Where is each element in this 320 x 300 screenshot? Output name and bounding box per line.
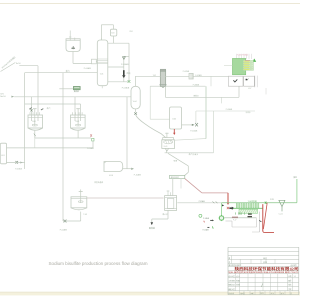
svg-text:P-15A/B: P-15A/B bbox=[203, 228, 209, 231]
wire gray drop bbox=[259, 212, 261, 232]
svg-text:Sodium bisulfite production pr: Sodium bisulfite production process flow… bbox=[49, 261, 149, 266]
svg-text:T-04蒸发罐: T-04蒸发罐 bbox=[248, 199, 257, 203]
page top edge line bbox=[0, 2, 300, 5]
svg-text:回流: 回流 bbox=[127, 71, 131, 75]
svg-text:T-03: T-03 bbox=[83, 214, 87, 216]
steam header bbox=[25, 103, 81, 105]
inline unit bbox=[92, 59, 97, 64]
wire drum outlet bbox=[113, 36, 115, 43]
svg-text:30%NaOH来自罐区: 30%NaOH来自罐区 bbox=[0, 55, 16, 69]
svg-text:NaOH: NaOH bbox=[16, 63, 21, 65]
svg-text:地址:陕西省西安市高新区锦业路 电话:029-8888888: 地址:陕西省西安市高新区锦业路 电话:029-88888888 邮编:71007… bbox=[228, 271, 298, 274]
column top nozzle bbox=[100, 38, 102, 40]
wire red transfer diagonal bbox=[185, 179, 202, 193]
title block bbox=[228, 247, 299, 295]
valve on drop bbox=[34, 134, 36, 137]
small pump circle bbox=[199, 214, 202, 217]
wire down to reactor R-01 bbox=[31, 97, 33, 121]
black arrow (flow marker) bbox=[123, 70, 125, 75]
black inlet arrow bbox=[229, 207, 232, 209]
wire reactor outlet header bbox=[35, 137, 91, 139]
svg-text:蒸发结晶器: 蒸发结晶器 bbox=[94, 180, 103, 184]
wire cw header bbox=[196, 110, 255, 112]
tube bundle teeth bbox=[236, 203, 259, 207]
arrow bbox=[11, 96, 14, 98]
pump box 2 bbox=[244, 76, 255, 86]
wire return loop bbox=[256, 218, 258, 227]
filter F-02 bbox=[189, 73, 193, 79]
svg-text:固体盐: 固体盐 bbox=[149, 226, 155, 230]
faint stub bbox=[265, 88, 267, 94]
lower fittings row bbox=[236, 212, 252, 214]
column bottom stub bbox=[101, 86, 103, 89]
crystallizer T-03 bbox=[80, 189, 82, 203]
narrow column E-02 bbox=[160, 70, 165, 87]
valve bbox=[64, 220, 67, 223]
hatch band bbox=[239, 209, 258, 213]
wire R-01 drop bbox=[34, 138, 36, 148]
wire down to pump bbox=[221, 203, 223, 216]
green fitting bbox=[92, 138, 94, 141]
svg-text:P-13: P-13 bbox=[270, 199, 273, 201]
wire solids out bbox=[167, 210, 169, 219]
svg-text:P-10A/B: P-10A/B bbox=[134, 174, 142, 177]
svg-text:蒸汽: 蒸汽 bbox=[66, 69, 70, 73]
svg-text:PI01: PI01 bbox=[130, 31, 133, 33]
wire bbox=[92, 141, 94, 148]
svg-text:V-07: V-07 bbox=[248, 88, 251, 90]
svg-text:放空: 放空 bbox=[293, 176, 297, 179]
svg-text:V-04: V-04 bbox=[133, 101, 137, 103]
wire down to reactor R-01 nozzle bbox=[37, 66, 39, 121]
valve (red cross) bbox=[90, 134, 92, 136]
red drain stub bbox=[173, 129, 175, 133]
wire tank overflow bbox=[7, 147, 94, 149]
svg-text:D-01: D-01 bbox=[164, 146, 168, 148]
green triangle bbox=[252, 59, 256, 62]
svg-text:审 定: 审 定 bbox=[263, 257, 267, 260]
cyclone C-01 bbox=[279, 200, 285, 206]
vessel V-05 bbox=[170, 107, 182, 129]
mini header table bbox=[237, 54, 252, 59]
svg-text:浓盐水: 浓盐水 bbox=[193, 94, 199, 98]
reactor R-01 bbox=[28, 109, 43, 138]
svg-text:P-07A/B: P-07A/B bbox=[183, 70, 190, 73]
wire down to reactor R-02 bbox=[74, 97, 76, 121]
wire V-04 bottom outlet bbox=[135, 109, 137, 113]
evaporator shell line bbox=[233, 207, 263, 209]
wire V-02 outlet bbox=[72, 52, 74, 64]
wire dissolver vapor bbox=[175, 139, 206, 141]
tank V-01 bbox=[0, 143, 6, 164]
wire steam to column bbox=[25, 72, 98, 74]
wire side connection bbox=[108, 66, 124, 68]
page bottom band bbox=[0, 292, 300, 296]
pump box 1 bbox=[228, 76, 243, 86]
valve bbox=[29, 108, 31, 110]
wire down to R-02 bbox=[80, 104, 82, 121]
wire drop to drum level bbox=[126, 97, 128, 169]
valve bbox=[122, 57, 125, 60]
svg-text:比例: 比例 bbox=[288, 275, 291, 278]
vessel V-04 bbox=[131, 86, 140, 109]
wire feeder to centrifuge bbox=[172, 179, 174, 196]
dissolver D-01 bbox=[163, 138, 174, 140]
svg-text:离心机: 离心机 bbox=[162, 212, 168, 216]
svg-text:P-01A/B: P-01A/B bbox=[15, 168, 22, 171]
green tick at junction bbox=[265, 202, 267, 204]
valve bbox=[128, 80, 131, 83]
wire bbox=[63, 220, 81, 222]
wire curve to dissolver bbox=[136, 115, 166, 138]
reactor R-02 bbox=[71, 109, 86, 138]
svg-text:蒸汽: 蒸汽 bbox=[47, 106, 51, 110]
svg-text:R-01: R-01 bbox=[32, 121, 36, 123]
svg-text:T-01: T-01 bbox=[100, 73, 104, 75]
svg-text:会 签: 会 签 bbox=[263, 261, 267, 264]
wire bottom loop bbox=[108, 81, 129, 83]
wire reflux pipe bbox=[123, 56, 125, 81]
svg-text:P-03A/B: P-03A/B bbox=[87, 147, 94, 150]
wire green riser bbox=[296, 179, 298, 203]
svg-text:图号: 图号 bbox=[288, 279, 291, 282]
svg-text:P-02A/B: P-02A/B bbox=[60, 228, 68, 231]
svg-text:P-14A/B: P-14A/B bbox=[203, 217, 209, 220]
striped mini table bbox=[243, 60, 253, 70]
wire dissolver outlet stub bbox=[166, 150, 168, 153]
svg-text:审核人员: 审核人员 bbox=[228, 284, 235, 287]
feeder box bbox=[170, 175, 185, 178]
drum V-06 bbox=[104, 162, 123, 172]
wire slurry diagonal bbox=[168, 153, 188, 166]
wire condenser loop top bbox=[108, 42, 129, 44]
svg-text:换热器: 换热器 bbox=[74, 90, 79, 93]
svg-text:P-08A/B: P-08A/B bbox=[193, 84, 200, 87]
svg-text:NaOH: NaOH bbox=[0, 96, 6, 98]
wire outlet with arrow bbox=[123, 168, 131, 170]
valve bbox=[30, 109, 32, 111]
red drop with arrow bbox=[227, 193, 229, 203]
svg-text:P-04A/B: P-04A/B bbox=[84, 67, 92, 70]
svg-text:P-06A/B: P-06A/B bbox=[121, 63, 129, 66]
svg-text:P-11A/B: P-11A/B bbox=[190, 129, 198, 132]
column T-01 bbox=[97, 40, 108, 86]
wire red product line bbox=[262, 204, 264, 231]
vessel V-02 bbox=[66, 39, 80, 52]
wire vapor green header bbox=[222, 202, 297, 204]
wire long vertical to crystallizer bbox=[62, 73, 64, 221]
svg-text:审定人员: 审定人员 bbox=[228, 288, 235, 291]
wire vapor header left (faint) bbox=[177, 202, 221, 204]
centrifuge S-01 bbox=[167, 191, 169, 196]
wire main left vertical bbox=[24, 73, 26, 169]
drum V-03 bbox=[110, 29, 116, 36]
svg-text:螺旋加料器: 螺旋加料器 bbox=[171, 176, 179, 179]
green block bbox=[232, 58, 245, 74]
svg-text:C-01: C-01 bbox=[279, 213, 283, 215]
svg-text:设计人员: 设计人员 bbox=[228, 275, 235, 278]
svg-text:R-02: R-02 bbox=[76, 121, 80, 123]
wire to tank V-01 bbox=[7, 162, 25, 164]
svg-text:工艺负责: 工艺负责 bbox=[228, 279, 235, 282]
side panel bbox=[254, 76, 256, 88]
wire long top header bbox=[165, 75, 228, 77]
svg-text:陕西科技环保节能科技有限公司: 陕西科技环保节能科技有限公司 bbox=[235, 266, 299, 271]
pump P-16 (green circle) bbox=[219, 216, 223, 220]
valve bbox=[16, 161, 19, 164]
wire condensate bbox=[165, 152, 214, 154]
junction arrow bbox=[222, 204, 225, 206]
svg-text:P-05A/B: P-05A/B bbox=[122, 86, 130, 89]
svg-text:V-05: V-05 bbox=[172, 118, 176, 120]
wire bbox=[19, 65, 38, 67]
svg-text:页次: 页次 bbox=[288, 288, 291, 291]
wire pump discharge bbox=[224, 217, 257, 219]
wire into V-05 bbox=[150, 118, 169, 120]
svg-text:V-03: V-03 bbox=[111, 33, 114, 35]
svg-text:V-01: V-01 bbox=[1, 155, 5, 157]
heater badge E-01 bbox=[59, 88, 73, 90]
svg-text:P-12A/B: P-12A/B bbox=[199, 200, 205, 203]
wire column top to drum bbox=[100, 25, 102, 40]
wire drop to V-05 inlet bbox=[149, 86, 151, 119]
wire NaOH feed bbox=[14, 96, 131, 98]
feed line from battery limit (diagonal) bbox=[1, 63, 16, 72]
svg-text:2023: 2023 bbox=[260, 293, 263, 295]
svg-text:V-06: V-06 bbox=[109, 175, 113, 177]
wire cw supply bbox=[182, 124, 192, 126]
svg-text:F-02A/B: F-02A/B bbox=[195, 74, 202, 77]
svg-text:1:1: 1:1 bbox=[294, 276, 296, 278]
svg-text:版次: 版次 bbox=[288, 284, 291, 287]
wire to V-04 bbox=[135, 75, 160, 77]
wire brine line bbox=[238, 86, 240, 97]
wire lower header bbox=[150, 85, 205, 87]
wire mother liquor line bbox=[87, 197, 164, 199]
wire link drop bbox=[210, 76, 212, 86]
wire small gray stub bbox=[231, 217, 238, 219]
svg-text:P-17: P-17 bbox=[233, 219, 236, 221]
